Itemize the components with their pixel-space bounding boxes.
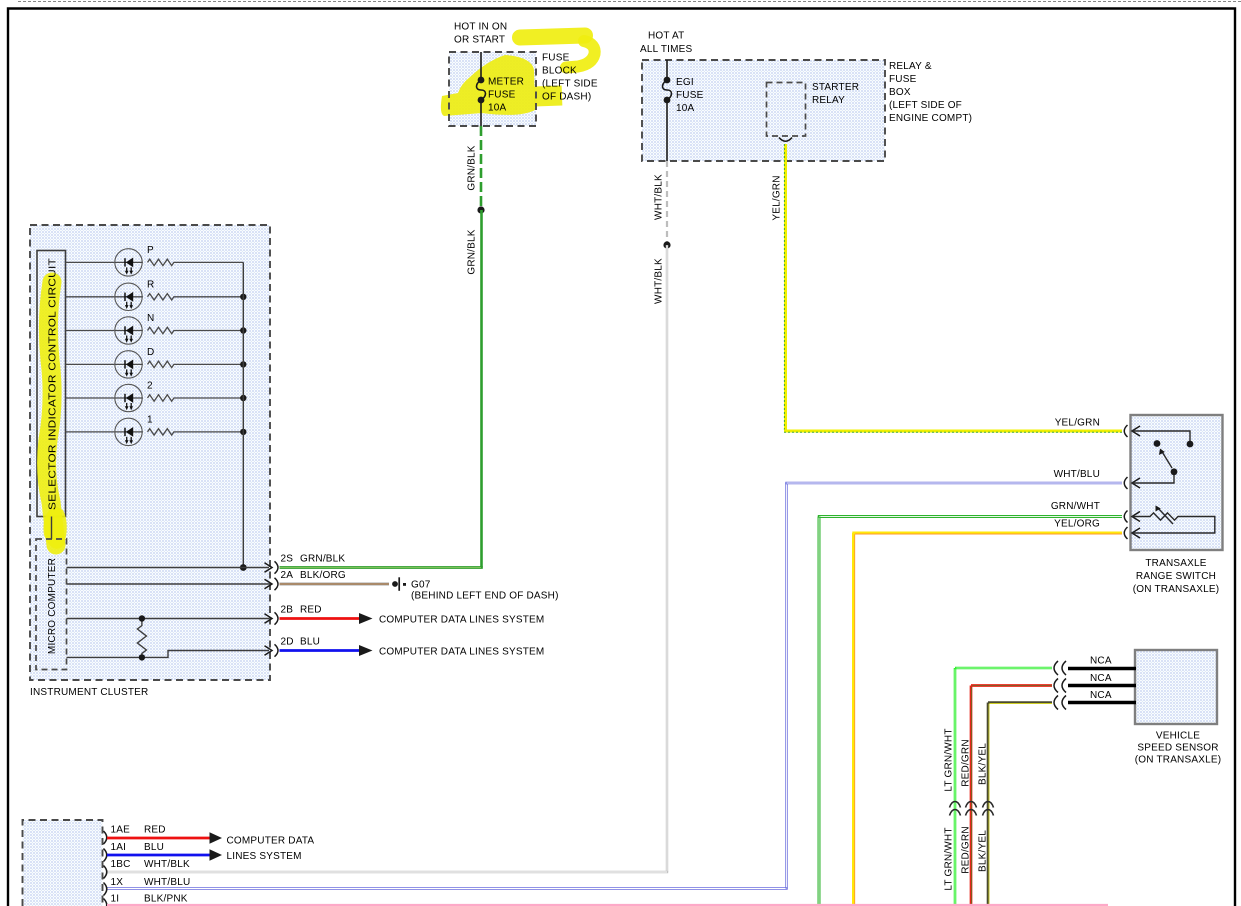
double-arc connectors at VSS: [1054, 661, 1066, 710]
svg-text:N: N: [147, 313, 154, 324]
LED row 2: [66, 384, 244, 411]
svg-text:BLU: BLU: [300, 637, 320, 648]
svg-text:FUSE: FUSE: [488, 90, 516, 101]
wire WHT/BLK vertical: [666, 245, 668, 872]
switch common node (WHT/BLU side): [1171, 468, 1178, 475]
svg-text:(ON TRANSAXLE): (ON TRANSAXLE): [1133, 584, 1220, 595]
highlighter blob over meter fuse box: [441, 55, 535, 116]
transaxle range switch fill: [1130, 415, 1222, 550]
svg-text:SELECTOR INDICATOR CONTROL CIR: SELECTOR INDICATOR CONTROL CIRCUIT: [48, 258, 59, 510]
svg-text:GRN/BLK: GRN/BLK: [467, 145, 478, 190]
svg-text:RED: RED: [300, 605, 322, 616]
svg-text:FUSE: FUSE: [676, 90, 704, 101]
svg-text:(LEFT SIDE OF: (LEFT SIDE OF: [889, 100, 962, 111]
wire 2D internal with jog: [67, 651, 270, 658]
svg-text:BLU: BLU: [144, 842, 164, 853]
svg-text:G07: G07: [411, 580, 431, 591]
wire LT GRN/WHT: [955, 667, 1052, 670]
wire 1AE RED: [107, 837, 210, 840]
LED row 1: [66, 418, 244, 445]
wire YEL/ORG horizontal: [852, 532, 1122, 535]
cluster box border: [30, 225, 270, 680]
svg-text:NCA: NCA: [1090, 656, 1112, 667]
micro computer box: [36, 539, 67, 670]
svg-text:LT GRN/WHT: LT GRN/WHT: [944, 827, 955, 890]
wire YEL/GRN vertical: [784, 144, 787, 431]
pin 1BC: [104, 866, 107, 879]
svg-text:COMPUTER DATA: COMPUTER DATA: [227, 836, 315, 847]
wire 1I BLK/PNK: [107, 904, 1108, 906]
NCA wire 1: [1068, 667, 1136, 671]
svg-text:MICRO COMPUTER: MICRO COMPUTER: [47, 558, 58, 654]
switch box: [1131, 415, 1223, 550]
top fine dashed line: [18, 1, 1241, 3]
svg-text:GRN/BLK: GRN/BLK: [300, 554, 345, 565]
svg-text:YEL/ORG: YEL/ORG: [1054, 519, 1100, 530]
pin 1AE: [104, 831, 107, 844]
svg-text:LINES SYSTEM: LINES SYSTEM: [227, 851, 302, 862]
svg-text:RED: RED: [144, 825, 166, 836]
connector GRN/WHT: [1124, 511, 1140, 523]
svg-text:RANGE SWITCH: RANGE SWITCH: [1136, 571, 1216, 582]
wire YEL/GRN horizontal: [784, 430, 1122, 433]
svg-text:EGI: EGI: [676, 77, 694, 88]
LED row D: [66, 351, 244, 378]
svg-text:SPEED SENSOR: SPEED SENSOR: [1137, 743, 1218, 754]
connector WHT/BLU: [1124, 477, 1140, 489]
svg-text:10A: 10A: [676, 103, 695, 114]
switch contact node (fixed, YEL/GRN side): [1187, 441, 1194, 448]
wire GRN/BLK solid vertical: [480, 210, 483, 568]
wire 2D BLU: [280, 649, 360, 652]
svg-text:2A: 2A: [281, 570, 294, 581]
wire YEL/ORG vertical: [852, 533, 855, 906]
switch internal wiring and movable contact lever: [1132, 431, 1190, 483]
wire 2B internal: [67, 618, 270, 620]
svg-text:TRANSAXLE: TRANSAXLE: [1145, 558, 1206, 569]
starter relay bottom connector arc: [779, 138, 792, 142]
svg-text:FUSE: FUSE: [889, 74, 917, 85]
LED row R: [66, 283, 244, 310]
instrument cluster fill: [30, 225, 270, 680]
svg-text:2D: 2D: [281, 637, 294, 648]
wire selector to micro computer: [51, 517, 53, 540]
wire 2A BLK/ORG: [280, 583, 390, 586]
svg-text:INSTRUMENT CLUSTER: INSTRUMENT CLUSTER: [30, 687, 148, 698]
svg-text:NCA: NCA: [1090, 690, 1112, 701]
svg-text:GRN/WHT: GRN/WHT: [1051, 501, 1100, 512]
splice S01 on GRN/BLK: [477, 206, 484, 213]
svg-text:COMPUTER DATA LINES SYSTEM: COMPUTER DATA LINES SYSTEM: [379, 647, 544, 658]
svg-text:RELAY: RELAY: [812, 95, 845, 106]
fuse block FB fill: [449, 52, 536, 126]
highlighter swoosh over FUSE BLOCK text: [520, 36, 585, 38]
svg-text:2S: 2S: [281, 554, 294, 565]
svg-text:(LEFT SIDE: (LEFT SIDE: [542, 79, 598, 90]
NCA wire 2: [1068, 684, 1136, 688]
svg-text:ENGINE COMPT): ENGINE COMPT): [889, 113, 972, 124]
svg-text:BLK/PNK: BLK/PNK: [144, 894, 188, 905]
selector box: [37, 251, 66, 517]
svg-text:P: P: [147, 245, 154, 256]
svg-text:BOX: BOX: [889, 87, 911, 98]
svg-text:RED/GRN: RED/GRN: [961, 826, 972, 874]
svg-text:(ON TRANSAXLE): (ON TRANSAXLE): [1135, 755, 1222, 766]
resistor between 2B and 2D: [137, 619, 146, 658]
wire GRN/WHT horizontal: [818, 515, 1122, 518]
svg-text:YEL/GRN: YEL/GRN: [1055, 418, 1100, 429]
pin 1I: [104, 899, 107, 906]
svg-text:VEHICLE: VEHICLE: [1156, 731, 1200, 742]
wire 2S internal: [67, 567, 270, 569]
svg-text:BLK/YEL: BLK/YEL: [978, 743, 989, 785]
svg-text:HOT AT: HOT AT: [648, 31, 684, 42]
wire BLK/YEL: [988, 701, 1052, 704]
NCA wire 3: [1068, 701, 1136, 705]
wire GRN/WHT vertical: [818, 517, 821, 906]
wire WHT/BLU horizontal bottom: [107, 887, 788, 889]
pin 2S connector: [265, 561, 279, 573]
svg-text:(BEHIND LEFT END OF DASH): (BEHIND LEFT END OF DASH): [411, 591, 559, 602]
pin 2D connector: [265, 644, 279, 656]
inline connectors on VSS verticals: [950, 802, 994, 816]
pin 1X: [104, 883, 107, 896]
relay & fuse box border: [642, 60, 885, 161]
bottom-left connector box fill: [23, 820, 103, 906]
box border: [23, 820, 103, 906]
wire GRN/BLK horizontal to 2S: [280, 566, 483, 569]
svg-text:FUSE: FUSE: [542, 53, 570, 64]
svg-text:COMPUTER DATA LINES SYSTEM: COMPUTER DATA LINES SYSTEM: [379, 615, 544, 626]
svg-text:HOT IN ON: HOT IN ON: [454, 22, 507, 33]
svg-text:1AI: 1AI: [111, 842, 127, 853]
svg-text:METER: METER: [488, 77, 524, 88]
svg-text:YEL/GRN: YEL/GRN: [772, 175, 783, 220]
svg-text:1X: 1X: [111, 877, 124, 888]
relay & fuse box fill: [642, 60, 885, 161]
meter fuse symbol: [477, 52, 486, 126]
svg-text:STARTER: STARTER: [812, 82, 859, 93]
splice on WHT/BLK: [663, 241, 670, 248]
wire 2B RED: [280, 617, 360, 620]
wire 2A internal: [67, 583, 270, 585]
svg-text:2: 2: [147, 381, 153, 392]
svg-text:WHT/BLK: WHT/BLK: [654, 258, 665, 304]
svg-text:NCA: NCA: [1090, 673, 1112, 684]
wire RED/GRN: [971, 684, 1052, 687]
wire WHT/BLK horizontal to 1BC: [107, 871, 668, 873]
highlighter vertical stroke over selector box: [47, 282, 56, 545]
pin 1AI: [104, 849, 107, 862]
svg-text:1AE: 1AE: [111, 825, 131, 836]
vehicle speed sensor fill: [1135, 650, 1217, 724]
LED bus vertical: [242, 262, 244, 567]
svg-text:1BC: 1BC: [111, 859, 131, 870]
LED row P: [66, 249, 244, 276]
wire WHT/BLU vertical: [785, 483, 787, 889]
svg-text:OF DASH): OF DASH): [542, 92, 591, 103]
pin 2B connector: [265, 612, 279, 624]
pin 2A connector: [265, 578, 279, 590]
svg-text:BLK/ORG: BLK/ORG: [300, 570, 346, 581]
wire WHT/BLU horizontal to switch: [785, 482, 1122, 484]
svg-text:1: 1: [147, 415, 153, 426]
wire GRN/BLK dashed segment: [480, 126, 483, 210]
starter relay box: [767, 83, 806, 137]
svg-text:WHT/BLK: WHT/BLK: [144, 859, 190, 870]
ground G07: [392, 581, 398, 587]
svg-text:10A: 10A: [488, 103, 507, 114]
svg-text:LT GRN/WHT: LT GRN/WHT: [944, 728, 955, 791]
variable resistor inside switch (GRN/WHT to YEL/ORG): [1132, 507, 1215, 533]
svg-text:ALL TIMES: ALL TIMES: [640, 44, 693, 55]
switch lever arrowhead: [1159, 449, 1165, 456]
svg-text:2B: 2B: [281, 605, 294, 616]
switch contact node (P position): [1154, 440, 1161, 447]
connector YEL/ORG: [1124, 527, 1140, 539]
highlighter patch right of fuse box: [534, 86, 563, 107]
svg-text:WHT/BLK: WHT/BLK: [654, 174, 665, 220]
LED row N: [66, 317, 244, 344]
svg-text:R: R: [147, 279, 154, 290]
svg-text:RELAY &: RELAY &: [889, 61, 932, 72]
svg-text:RED/GRN: RED/GRN: [961, 739, 972, 787]
svg-text:1I: 1I: [111, 894, 120, 905]
EGI fuse symbol: [663, 60, 672, 161]
svg-text:OR START: OR START: [454, 35, 505, 46]
connector YEL/GRN: [1124, 425, 1140, 437]
wire WHT/BLK dashed segment: [666, 161, 668, 245]
fuse block box border: [449, 52, 536, 126]
VSS box: [1135, 650, 1217, 724]
svg-text:GRN/BLK: GRN/BLK: [467, 229, 478, 274]
svg-text:WHT/BLU: WHT/BLU: [144, 877, 190, 888]
wire 1AI BLU: [107, 854, 210, 857]
svg-text:WHT/BLU: WHT/BLU: [1054, 469, 1100, 480]
svg-text:BLOCK: BLOCK: [542, 66, 577, 77]
svg-text:BLK/YEL: BLK/YEL: [978, 830, 989, 872]
svg-text:D: D: [147, 347, 154, 358]
